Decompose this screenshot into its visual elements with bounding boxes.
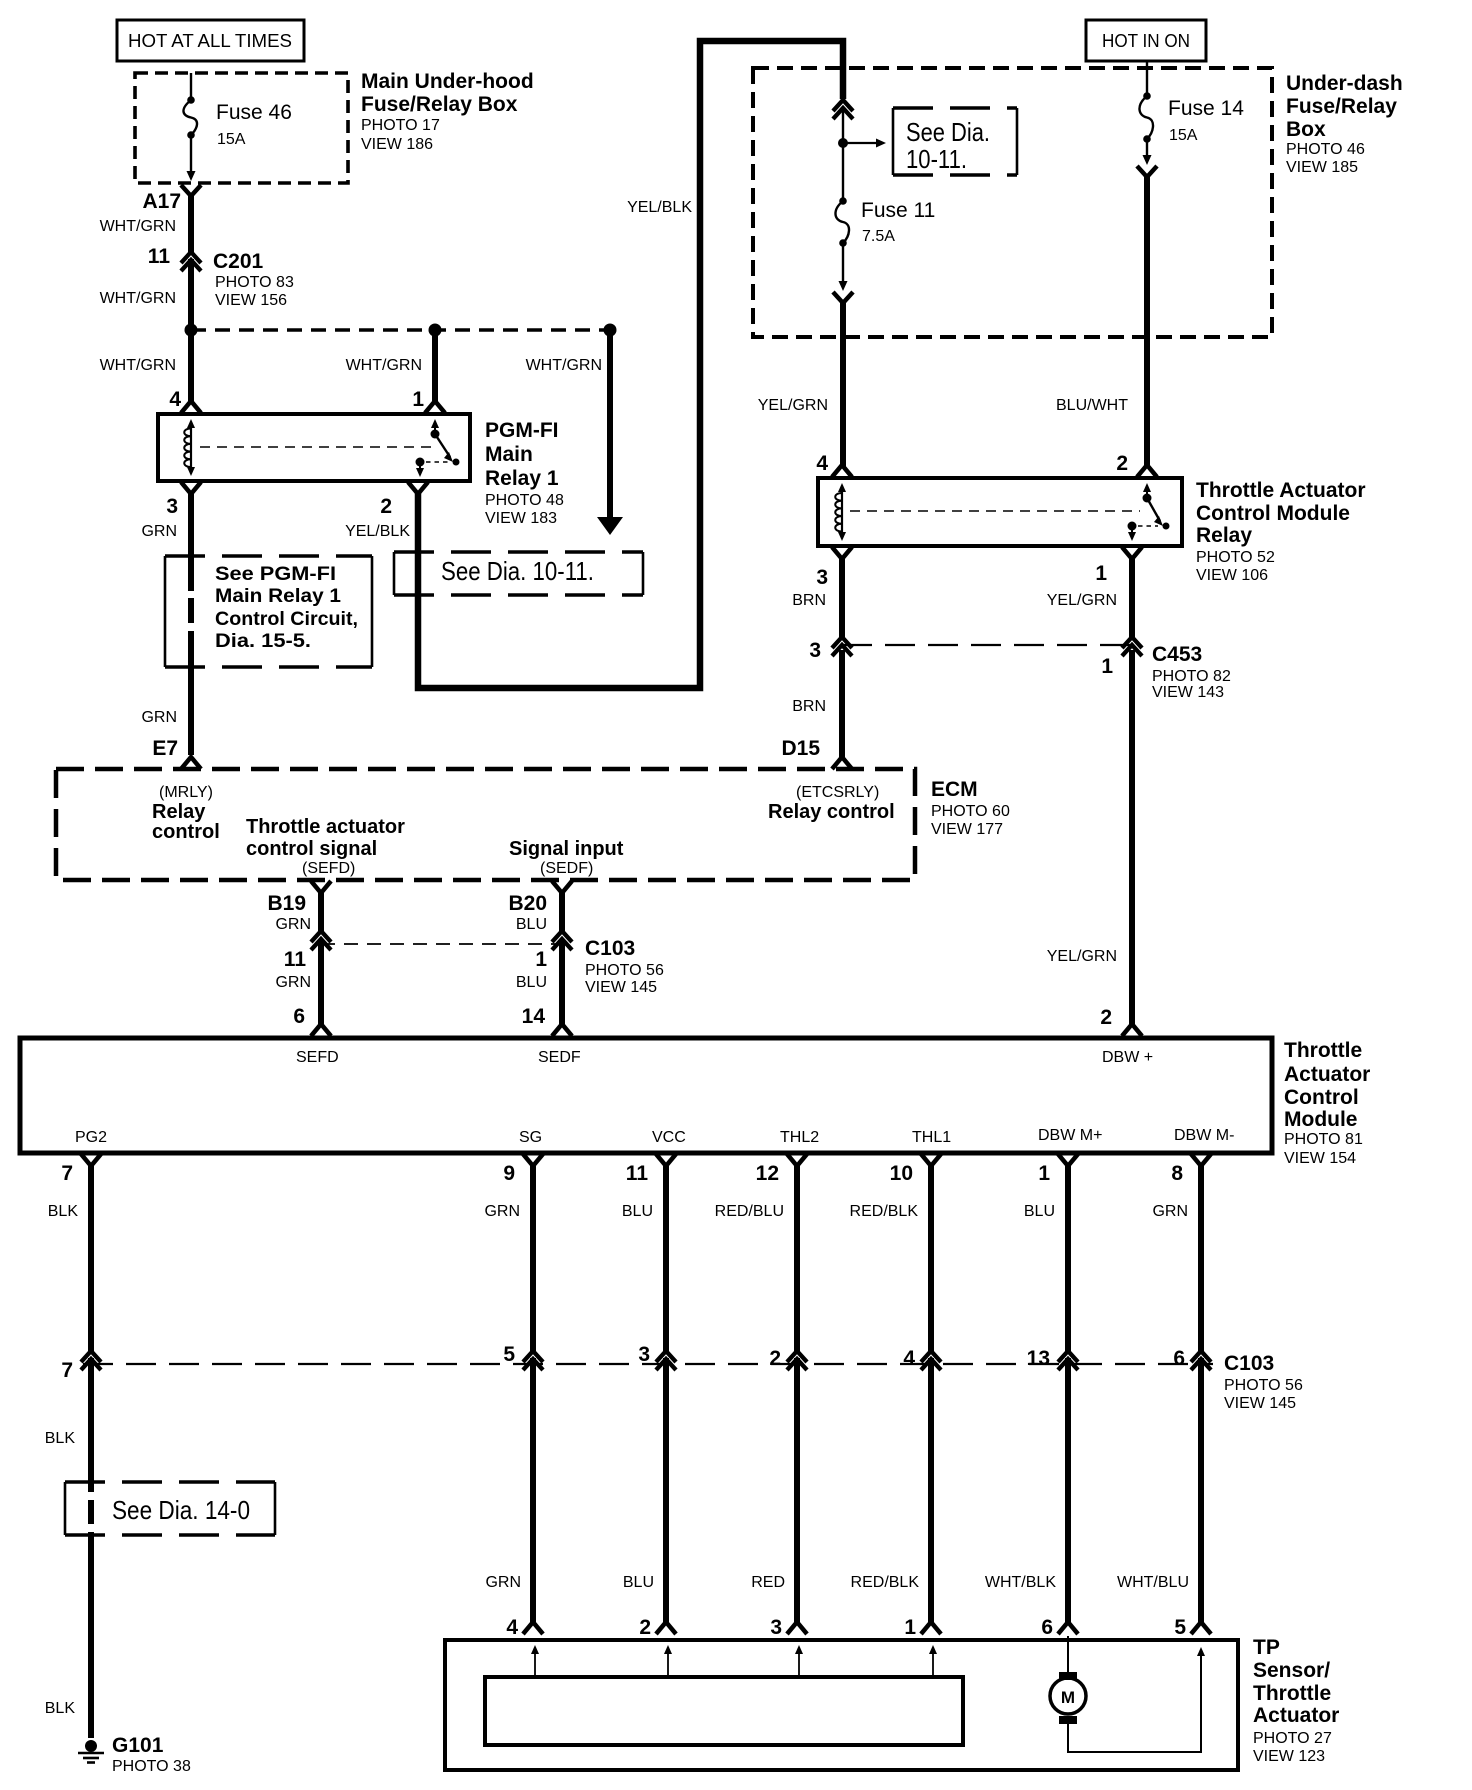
- svg-text:VIEW 186: VIEW 186: [361, 136, 433, 153]
- svg-text:Relay: Relay: [152, 801, 206, 823]
- svg-text:Throttle: Throttle: [1284, 1039, 1362, 1062]
- svg-text:3: 3: [166, 495, 178, 518]
- svg-text:10: 10: [890, 1162, 913, 1185]
- svg-text:See Dia. 14-0: See Dia. 14-0: [112, 1495, 250, 1525]
- svg-text:DBW +: DBW +: [1102, 1049, 1153, 1066]
- TP sensor wiper arrow: [667, 1652, 669, 1676]
- svg-text:(MRLY): (MRLY): [159, 784, 213, 801]
- connector C103 upper (dashed tie line): [321, 943, 562, 945]
- svg-text:WHT/BLU: WHT/BLU: [1117, 1574, 1189, 1591]
- svg-text:C103: C103: [1224, 1352, 1274, 1375]
- svg-text:Control Circuit,: Control Circuit,: [215, 609, 358, 630]
- svg-text:3: 3: [809, 639, 821, 662]
- power label HOT AT ALL TIMES: [117, 20, 304, 61]
- svg-text:VIEW 143: VIEW 143: [1152, 684, 1224, 701]
- svg-text:11: 11: [626, 1162, 649, 1185]
- svg-text:DBW M-: DBW M-: [1174, 1127, 1234, 1144]
- svg-text:7: 7: [61, 1162, 73, 1185]
- svg-text:Sensor/: Sensor/: [1253, 1659, 1330, 1682]
- svg-text:C453: C453: [1152, 643, 1202, 666]
- svg-text:PHOTO 52: PHOTO 52: [1196, 549, 1275, 566]
- module TP Sensor / Throttle Actuator (box): [445, 1640, 1238, 1770]
- svg-text:RED/BLK: RED/BLK: [850, 1203, 919, 1220]
- svg-text:PHOTO 56: PHOTO 56: [585, 962, 664, 979]
- terminal leaving fuse 14: [1137, 166, 1157, 177]
- svg-text:VIEW 123: VIEW 123: [1253, 1748, 1325, 1765]
- svg-text:Box: Box: [1286, 118, 1326, 141]
- svg-text:D15: D15: [781, 737, 820, 760]
- svg-text:Actuator: Actuator: [1284, 1063, 1370, 1086]
- svg-text:VIEW 185: VIEW 185: [1286, 159, 1358, 176]
- svg-text:2: 2: [639, 1616, 651, 1639]
- svg-text:2: 2: [769, 1347, 781, 1370]
- connector C201 pin 11: [181, 252, 201, 263]
- connector pair entering under-dash box (YEL/BLK): [833, 100, 853, 111]
- mechanical link (dashed) in PGM-FI relay: [200, 446, 438, 448]
- svg-text:2: 2: [1100, 1006, 1112, 1029]
- svg-text:Relay control: Relay control: [768, 801, 895, 823]
- svg-text:GRN: GRN: [141, 523, 177, 540]
- svg-text:TP: TP: [1253, 1636, 1280, 1659]
- wire RED C103 to TP sensor pin 3: [794, 1358, 800, 1624]
- svg-text:B19: B19: [267, 892, 306, 915]
- wire RED/BLU TACM pin 12 to C103: [794, 1164, 800, 1353]
- fuse F14 15A: [1143, 92, 1151, 100]
- ground G101 PHOTO 38: [85, 1740, 97, 1752]
- svg-text:WHT/GRN: WHT/GRN: [100, 290, 176, 307]
- reference box See PGM-FI Main Relay 1 Control Circuit Dia. 15-5: [164, 556, 167, 667]
- connector C103 pin 5: [523, 1351, 543, 1362]
- wire BLU B20 to C103 pin 1: [559, 891, 565, 933]
- svg-text:THL2: THL2: [780, 1129, 819, 1146]
- svg-text:1: 1: [1101, 655, 1113, 678]
- svg-text:Under-dash: Under-dash: [1286, 72, 1403, 95]
- svg-text:Fuse/Relay Box: Fuse/Relay Box: [361, 93, 518, 116]
- wire BLU C103 to TP sensor pin 2: [663, 1358, 669, 1624]
- svg-text:RED: RED: [751, 1574, 785, 1591]
- svg-text:VIEW 154: VIEW 154: [1284, 1150, 1356, 1167]
- svg-text:12: 12: [756, 1162, 779, 1185]
- svg-text:Module: Module: [1284, 1108, 1358, 1131]
- svg-text:YEL/GRN: YEL/GRN: [1047, 592, 1117, 609]
- wire GRN TACM pin 9 to C103: [530, 1164, 536, 1353]
- wire motor return loop to TP pin 5: [1068, 1656, 1201, 1752]
- svg-text:GRN: GRN: [1152, 1203, 1188, 1220]
- svg-text:WHT/GRN: WHT/GRN: [526, 357, 602, 374]
- svg-text:1: 1: [535, 948, 547, 971]
- wire GRN C103 to TACM pin 6 SEFD: [318, 940, 324, 1026]
- svg-text:VCC: VCC: [652, 1129, 686, 1146]
- wire BLU TACM pin 11 to C103: [663, 1164, 669, 1353]
- relay U2 Throttle Actuator Control Module Relay (box): [818, 478, 1182, 546]
- svg-text:VIEW 145: VIEW 145: [585, 979, 657, 996]
- connector C103 pin 3: [656, 1351, 676, 1362]
- svg-text:YEL/BLK: YEL/BLK: [627, 199, 692, 216]
- svg-text:7: 7: [61, 1359, 73, 1382]
- wire WHT/GRN node to See Dia. 10-11 (arrow): [607, 330, 613, 520]
- relay PGM-FI Main Relay 1 (box): [158, 414, 470, 481]
- svg-text:control: control: [152, 821, 220, 843]
- connector terminal A17: [181, 185, 201, 196]
- svg-text:SEFD: SEFD: [296, 1049, 339, 1066]
- svg-text:4: 4: [169, 388, 181, 411]
- connector C103 pin 7: [81, 1351, 101, 1362]
- svg-text:HOT AT ALL TIMES: HOT AT ALL TIMES: [128, 31, 292, 51]
- svg-text:THL1: THL1: [912, 1129, 951, 1146]
- wire WHT/BLK C103 to TP sensor pin 6: [1065, 1358, 1071, 1624]
- svg-text:BLK: BLK: [45, 1700, 76, 1717]
- svg-text:Throttle actuator: Throttle actuator: [246, 816, 405, 838]
- svg-text:BLU: BLU: [623, 1574, 654, 1591]
- svg-text:SG: SG: [519, 1129, 542, 1146]
- wire WHT/GRN A17 to C201: [188, 194, 194, 254]
- svg-text:3: 3: [770, 1616, 782, 1639]
- wire YEL/GRN C453 to TACM pin 2 DBW+: [1129, 650, 1135, 1026]
- svg-text:1: 1: [412, 388, 424, 411]
- svg-text:8: 8: [1171, 1162, 1183, 1185]
- svg-text:PHOTO 56: PHOTO 56: [1224, 1377, 1303, 1394]
- terminal leaving fuse 11: [833, 292, 853, 303]
- power label HOT IN ON: [1086, 20, 1206, 61]
- wire from HOT AT ALL TIMES to fuse 46: [190, 73, 192, 100]
- svg-text:PHOTO 82: PHOTO 82: [1152, 668, 1231, 685]
- svg-text:WHT/GRN: WHT/GRN: [100, 218, 176, 235]
- wire BLU TACM pin 1 to C103: [1065, 1164, 1071, 1353]
- fuse F11 7.5A: [842, 143, 844, 201]
- svg-text:WHT/GRN: WHT/GRN: [100, 357, 176, 374]
- svg-text:Fuse 11: Fuse 11: [861, 199, 935, 222]
- svg-text:PHOTO 48: PHOTO 48: [485, 492, 564, 509]
- svg-text:PG2: PG2: [75, 1129, 107, 1146]
- svg-text:9: 9: [503, 1162, 515, 1185]
- node junction to See Dia. 10-11: [838, 138, 848, 148]
- svg-text:Control: Control: [1284, 1086, 1359, 1109]
- svg-text:BLU: BLU: [516, 974, 547, 991]
- relay switch contact of TACM relay: [1143, 483, 1151, 492]
- svg-text:15A: 15A: [217, 131, 246, 148]
- wire YEL/BLK relay pin 2 to under-dash fuse box: [418, 41, 843, 688]
- svg-text:7.5A: 7.5A: [862, 228, 895, 245]
- module U3 Throttle Actuator Control Module (box): [20, 1038, 1272, 1153]
- wire RED/BLK TACM pin 10 to C103: [928, 1164, 934, 1353]
- svg-text:Main Relay 1: Main Relay 1: [215, 586, 341, 607]
- wire node to fuse 11: [842, 107, 844, 143]
- wire YEL/GRN fuse 11 to TACM relay pin 4: [840, 301, 846, 467]
- svg-text:A17: A17: [142, 190, 181, 213]
- svg-text:(ETCSRLY): (ETCSRLY): [796, 784, 879, 801]
- svg-text:2: 2: [1116, 452, 1128, 475]
- motor M throttle actuator: [1067, 1636, 1069, 1674]
- wire WHT/GRN node to PGM-FI relay pin 4: [188, 330, 194, 403]
- svg-text:GRN: GRN: [484, 1203, 520, 1220]
- svg-text:6: 6: [1173, 1347, 1185, 1370]
- svg-text:10-11.: 10-11.: [906, 144, 967, 174]
- wire BLK TACM pin 7 to C103: [88, 1164, 94, 1353]
- svg-text:Main: Main: [485, 443, 533, 466]
- svg-text:B20: B20: [508, 892, 547, 915]
- svg-text:4: 4: [816, 452, 828, 475]
- connector C103 pin 6: [1191, 1351, 1211, 1362]
- connector C453 (dashed tie line): [842, 644, 1132, 646]
- svg-text:PGM-FI: PGM-FI: [485, 419, 559, 442]
- svg-text:BRN: BRN: [792, 698, 826, 715]
- svg-text:1: 1: [1095, 562, 1107, 585]
- svg-text:YEL/GRN: YEL/GRN: [758, 397, 828, 414]
- wire RED/BLK C103 to TP sensor pin 1: [928, 1358, 934, 1624]
- wire GRN C103 to TP sensor pin 4: [530, 1358, 536, 1624]
- mechanical link (dashed) in TACM relay: [850, 510, 1140, 512]
- svg-text:VIEW 156: VIEW 156: [215, 292, 287, 309]
- svg-text:Main Under-hood: Main Under-hood: [361, 70, 534, 93]
- svg-text:G101: G101: [112, 1734, 164, 1757]
- connector C103 pin 13: [1058, 1351, 1078, 1362]
- svg-text:SEDF: SEDF: [538, 1049, 581, 1066]
- svg-text:Relay: Relay: [1196, 524, 1252, 547]
- wire fuse 14 to exit terminal: [1146, 139, 1148, 156]
- svg-text:WHT/GRN: WHT/GRN: [346, 357, 422, 374]
- wire fuse 46 to terminal A17: [190, 135, 192, 172]
- relay switch contact of PGM-FI main relay: [431, 419, 439, 428]
- svg-text:4: 4: [903, 1347, 915, 1370]
- svg-text:YEL/GRN: YEL/GRN: [1047, 948, 1117, 965]
- svg-text:1: 1: [904, 1616, 916, 1639]
- relay coil of TACM relay: [838, 483, 846, 492]
- ECM (dashed box): [56, 769, 915, 880]
- fuse box FB2 Under-dash Fuse/Relay Box (dashed): [753, 68, 1272, 337]
- svg-text:RED/BLU: RED/BLU: [715, 1203, 784, 1220]
- svg-text:C103: C103: [585, 937, 635, 960]
- svg-text:GRN: GRN: [275, 974, 311, 991]
- svg-text:15A: 15A: [1169, 127, 1198, 144]
- reference box See Dia. 10-11 (lower): [393, 552, 396, 595]
- TP sensor wiper arrow: [798, 1652, 800, 1676]
- wire BRN TACM relay pin 3 to C453: [839, 557, 845, 638]
- svg-text:Relay 1: Relay 1: [485, 467, 559, 490]
- svg-text:YEL/BLK: YEL/BLK: [345, 523, 410, 540]
- svg-text:VIEW 177: VIEW 177: [931, 821, 1003, 838]
- svg-text:(SEDF): (SEDF): [540, 860, 593, 877]
- wire WHT/BLU C103 to TP sensor pin 5: [1198, 1358, 1204, 1624]
- wire GRN relay pin 3 to E7 (broken through ref box): [188, 492, 194, 591]
- svg-text:Control Module: Control Module: [1196, 502, 1350, 525]
- svg-text:11: 11: [284, 948, 307, 971]
- node WHT/GRN splice (dashed bus): [191, 328, 610, 332]
- relay coil of PGM-FI main relay: [187, 419, 195, 428]
- svg-text:BLU: BLU: [1024, 1203, 1055, 1220]
- svg-text:WHT/BLK: WHT/BLK: [985, 1574, 1056, 1591]
- wire from HOT IN ON to fuse 14: [1146, 61, 1148, 96]
- svg-text:3: 3: [816, 566, 828, 589]
- svg-text:PHOTO 27: PHOTO 27: [1253, 1730, 1332, 1747]
- svg-text:14: 14: [522, 1005, 546, 1028]
- svg-text:2: 2: [380, 495, 392, 518]
- svg-text:3: 3: [638, 1343, 650, 1366]
- wire BRN C453 to ECM D15: [839, 650, 845, 759]
- svg-text:See Dia. 10-11.: See Dia. 10-11.: [441, 556, 594, 586]
- svg-text:BLK: BLK: [45, 1430, 76, 1447]
- svg-text:Signal input: Signal input: [509, 838, 624, 860]
- svg-text:BLU/WHT: BLU/WHT: [1056, 397, 1128, 414]
- svg-text:BRN: BRN: [792, 592, 826, 609]
- svg-text:PHOTO 38: PHOTO 38: [112, 1758, 191, 1775]
- svg-text:11: 11: [148, 245, 171, 268]
- svg-text:HOT IN ON: HOT IN ON: [1102, 31, 1190, 51]
- svg-text:Fuse/Relay: Fuse/Relay: [1286, 95, 1397, 118]
- wire WHT/GRN C201 to junction node: [188, 259, 194, 330]
- svg-text:13: 13: [1027, 1347, 1050, 1370]
- connector C103 lower (dashed tie line): [83, 1363, 1213, 1365]
- wire fuse 11 to exit terminal: [842, 243, 844, 282]
- svg-text:See Dia.: See Dia.: [906, 117, 990, 147]
- TP sensor potentiometer element (inner box): [485, 1677, 963, 1745]
- wire GRN B19 to C103 pin 11: [318, 891, 324, 933]
- svg-text:PHOTO 60: PHOTO 60: [931, 803, 1010, 820]
- svg-text:6: 6: [1041, 1616, 1053, 1639]
- svg-text:BLU: BLU: [516, 916, 547, 933]
- connector C103 pin 4: [921, 1351, 941, 1362]
- TP sensor wiper arrow: [932, 1652, 934, 1676]
- svg-text:E7: E7: [152, 737, 178, 760]
- svg-text:6: 6: [293, 1005, 305, 1028]
- svg-text:Actuator: Actuator: [1253, 1704, 1339, 1727]
- svg-text:C201: C201: [213, 250, 264, 273]
- svg-text:M: M: [1061, 1688, 1075, 1707]
- svg-text:See PGM-FI: See PGM-FI: [215, 564, 336, 585]
- fuse box FB1 Main Under-hood Fuse/Relay Box (dashed): [135, 73, 348, 183]
- svg-text:DBW M+: DBW M+: [1038, 1127, 1102, 1144]
- svg-text:control signal: control signal: [246, 838, 377, 860]
- svg-text:RED/BLK: RED/BLK: [851, 1574, 920, 1591]
- svg-text:Fuse 46: Fuse 46: [216, 101, 292, 124]
- svg-text:VIEW 145: VIEW 145: [1224, 1395, 1296, 1412]
- svg-text:VIEW 106: VIEW 106: [1196, 567, 1268, 584]
- svg-text:ECM: ECM: [931, 778, 978, 801]
- svg-text:GRN: GRN: [485, 1574, 521, 1591]
- svg-text:PHOTO 17: PHOTO 17: [361, 117, 440, 134]
- svg-text:(SEFD): (SEFD): [302, 860, 355, 877]
- svg-text:PHOTO 83: PHOTO 83: [215, 274, 294, 291]
- svg-text:Throttle Actuator: Throttle Actuator: [1196, 479, 1366, 502]
- svg-text:Throttle: Throttle: [1253, 1682, 1331, 1705]
- reference box See Dia. 14-0: [64, 1482, 67, 1535]
- wire BLU C103 to TACM pin 14 SEDF: [559, 940, 565, 1026]
- wire BLK C103 to G101 (broken through ref box): [88, 1358, 94, 1492]
- svg-text:BLK: BLK: [48, 1203, 79, 1220]
- wire BLU/WHT fuse 14 to TACM relay pin 2: [1144, 175, 1150, 467]
- svg-text:Dia. 15-5.: Dia. 15-5.: [215, 631, 311, 652]
- wire YEL/GRN TACM relay pin 1 to C453: [1129, 557, 1135, 638]
- svg-text:GRN: GRN: [275, 916, 311, 933]
- connector C103 pin 2: [787, 1351, 807, 1362]
- svg-text:BLU: BLU: [622, 1203, 653, 1220]
- wire WHT/GRN node to PGM-FI relay pin 1: [432, 330, 438, 403]
- svg-text:5: 5: [1174, 1616, 1186, 1639]
- fuse F46 15A: [187, 96, 195, 104]
- TP sensor wiper arrow: [534, 1652, 536, 1676]
- svg-text:PHOTO 81: PHOTO 81: [1284, 1131, 1363, 1148]
- svg-text:4: 4: [506, 1616, 518, 1639]
- svg-text:5: 5: [503, 1343, 515, 1366]
- wire GRN TACM pin 8 to C103: [1198, 1164, 1204, 1353]
- reference box See Dia. 10-11 (upper): [892, 108, 895, 175]
- svg-text:1: 1: [1038, 1162, 1050, 1185]
- svg-text:VIEW 183: VIEW 183: [485, 510, 557, 527]
- svg-text:GRN: GRN: [141, 709, 177, 726]
- svg-text:PHOTO 46: PHOTO 46: [1286, 141, 1365, 158]
- svg-text:Fuse 14: Fuse 14: [1168, 97, 1244, 120]
